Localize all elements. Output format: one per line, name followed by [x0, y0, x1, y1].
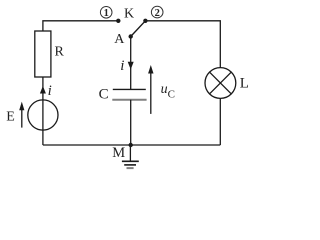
source E circle	[28, 100, 58, 130]
svg-text:C: C	[99, 86, 109, 102]
capacitor C bottom plate (grey)	[112, 99, 146, 101]
E arrow	[19, 102, 24, 128]
lamp L	[205, 68, 236, 99]
resistor R body	[35, 31, 51, 77]
svg-text:A: A	[114, 32, 125, 47]
switch K contact 2 dot	[143, 19, 147, 23]
source E internal wire	[42, 100, 44, 130]
wire capacitor to node M	[130, 100, 132, 145]
wire lamp to bottom	[219, 98, 221, 145]
label circled 2	[151, 6, 163, 18]
svg-text:u: u	[161, 82, 168, 97]
current arrow i into capacitor (down)	[128, 62, 134, 70]
svg-text:i: i	[48, 83, 52, 99]
svg-text:E: E	[6, 110, 15, 125]
wire source to bottom	[42, 130, 44, 145]
wire node A down to capacitor	[130, 37, 132, 90]
svg-text:K: K	[124, 7, 134, 22]
svg-text:C: C	[168, 88, 175, 100]
node M dot	[129, 143, 133, 147]
svg-text:M: M	[112, 145, 125, 161]
svg-text:L: L	[240, 75, 249, 91]
node A dot	[129, 34, 133, 38]
switch K lever arm	[131, 21, 146, 37]
voltage arrow uC (up)	[148, 65, 153, 114]
ground	[122, 145, 139, 168]
switch K contact 1 dot	[116, 19, 120, 23]
wire top-right horizontal	[145, 21, 220, 68]
label circled 1	[100, 7, 112, 20]
current arrow i at source (up)	[40, 86, 46, 94]
wire bottom horizontal	[43, 144, 220, 146]
wire top-left horizontal	[43, 21, 118, 31]
svg-text:i: i	[120, 58, 124, 74]
svg-text:R: R	[55, 45, 65, 60]
svg-text:2: 2	[155, 8, 160, 19]
svg-text:1: 1	[104, 8, 109, 19]
wire resistor to source	[42, 77, 44, 100]
capacitor C top plate	[113, 88, 146, 90]
